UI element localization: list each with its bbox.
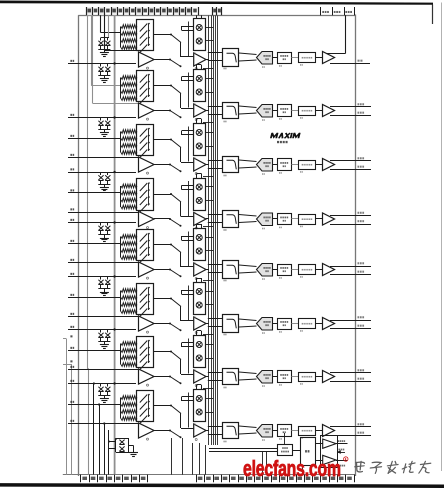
svg-text:elecfans.com: elecfans.com [243, 458, 341, 482]
